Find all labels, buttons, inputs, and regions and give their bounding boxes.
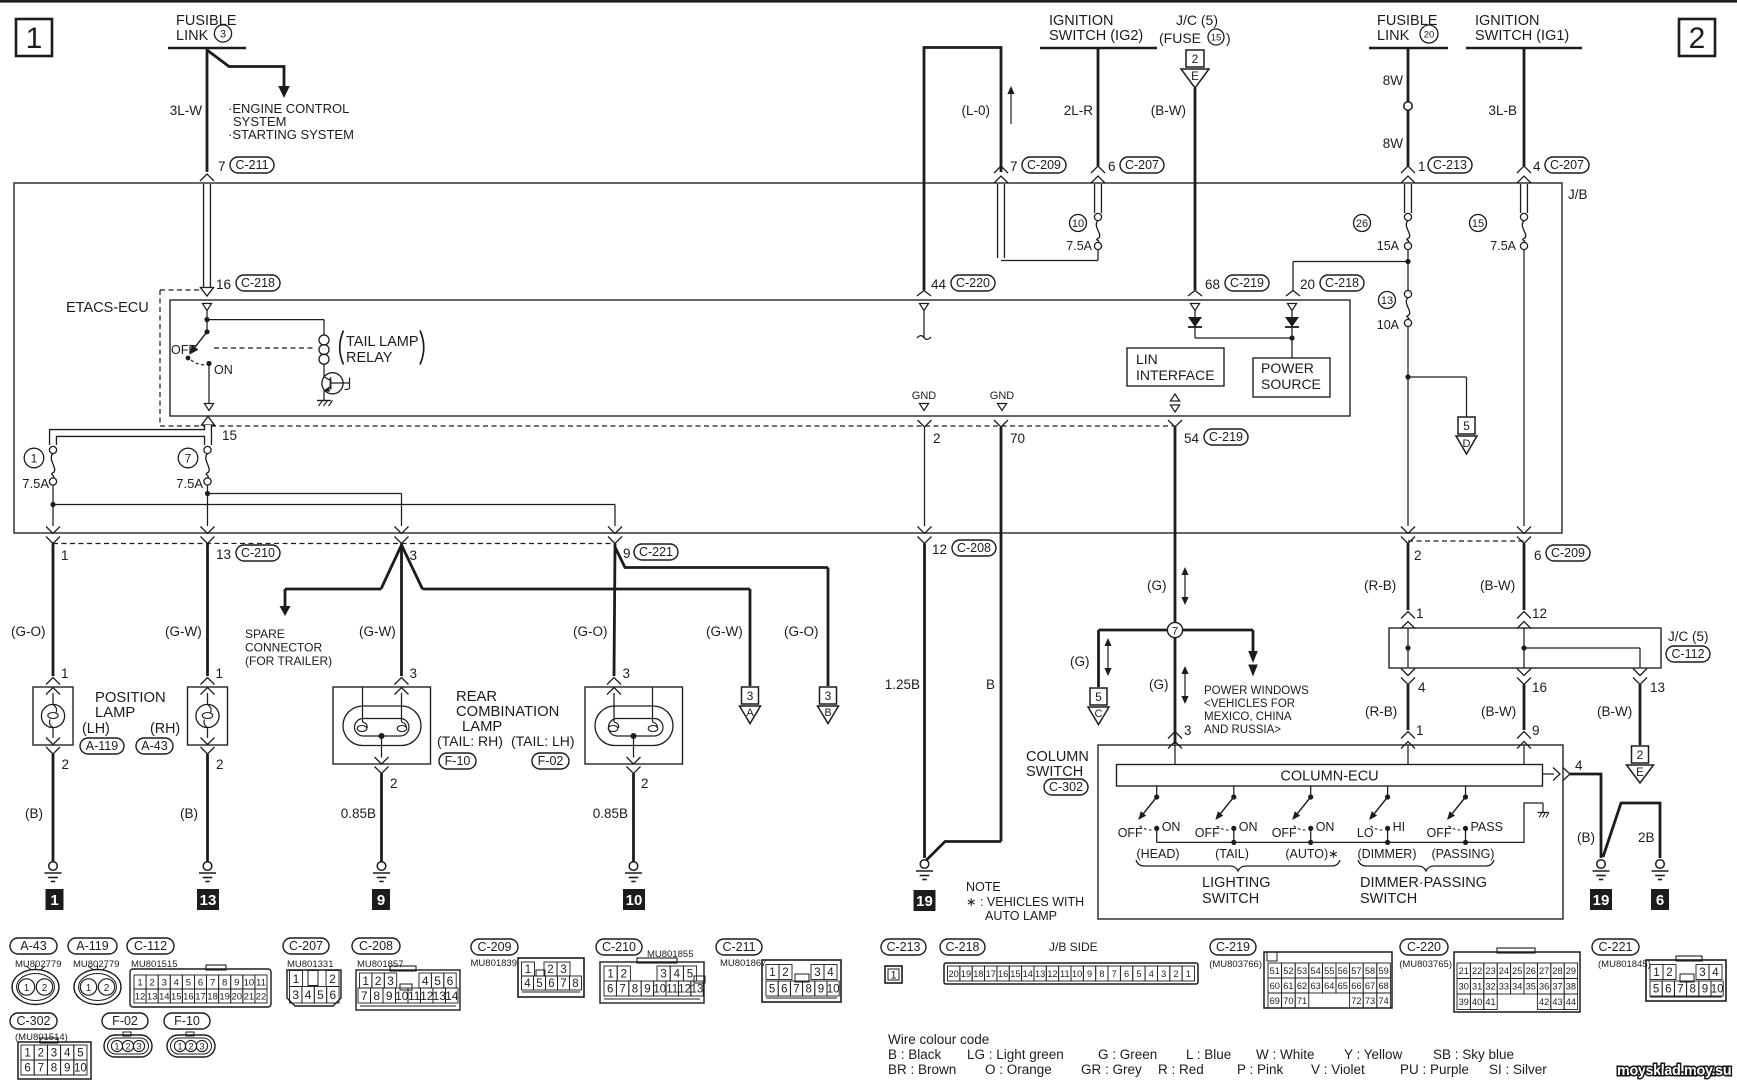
svg-text:(B-W): (B-W) bbox=[1480, 578, 1515, 593]
connector pinout C-302 bbox=[10, 1013, 57, 1029]
svg-text:23: 23 bbox=[1485, 966, 1495, 976]
svg-text:7: 7 bbox=[185, 451, 192, 465]
svg-text:55: 55 bbox=[1324, 966, 1334, 976]
svg-text:5: 5 bbox=[687, 969, 693, 981]
svg-text:43: 43 bbox=[1552, 997, 1562, 1007]
svg-text:6: 6 bbox=[330, 988, 337, 1002]
svg-text:C-221: C-221 bbox=[1598, 940, 1632, 954]
label 13 C-210 bbox=[214, 544, 284, 561]
svg-text:HI: HI bbox=[1393, 820, 1406, 834]
svg-text:6: 6 bbox=[548, 978, 554, 990]
svg-text:(R-B): (R-B) bbox=[1364, 578, 1396, 593]
svg-text:LG : Light green: LG : Light green bbox=[967, 1047, 1064, 1062]
svg-text:J/B: J/B bbox=[1568, 187, 1588, 202]
svg-text:35: 35 bbox=[1526, 982, 1536, 992]
svg-text:3: 3 bbox=[814, 967, 820, 979]
svg-text:2: 2 bbox=[1173, 969, 1178, 979]
svg-text:1: 1 bbox=[137, 977, 142, 988]
svg-text:14: 14 bbox=[159, 991, 170, 1002]
wire 2L-R bbox=[1097, 48, 1100, 166]
ground point 19 right bbox=[1590, 889, 1612, 910]
svg-text:O : Orange: O : Orange bbox=[985, 1062, 1052, 1077]
svg-text:12: 12 bbox=[1047, 969, 1057, 979]
ground point 1 bbox=[46, 889, 64, 910]
svg-text:SWITCH: SWITCH bbox=[1026, 764, 1083, 780]
diode from pin 68 bbox=[1190, 304, 1199, 311]
svg-text:9: 9 bbox=[377, 892, 385, 909]
svg-text:12: 12 bbox=[1532, 606, 1547, 621]
svg-text:28: 28 bbox=[1552, 966, 1562, 976]
svg-text:4: 4 bbox=[1149, 969, 1154, 979]
svg-text:3: 3 bbox=[136, 1042, 141, 1052]
svg-text:37: 37 bbox=[1552, 982, 1562, 992]
svg-text:3: 3 bbox=[747, 689, 754, 703]
svg-text:F-02: F-02 bbox=[112, 1014, 138, 1028]
svg-text:9: 9 bbox=[64, 1063, 70, 1075]
svg-text:(G-W): (G-W) bbox=[359, 624, 396, 639]
wire G-O to position lamp LH bbox=[52, 544, 55, 677]
svg-text:1: 1 bbox=[1653, 967, 1659, 979]
connector 1 exit at J/B bottom bbox=[46, 527, 60, 534]
svg-text:MU802779: MU802779 bbox=[73, 959, 119, 970]
svg-text:C-218: C-218 bbox=[1325, 276, 1359, 290]
svg-text:C-221: C-221 bbox=[639, 545, 673, 559]
svg-text:68: 68 bbox=[1378, 981, 1388, 991]
svg-text:1: 1 bbox=[525, 964, 531, 976]
svg-text:MU802779: MU802779 bbox=[15, 959, 61, 970]
svg-text:25: 25 bbox=[1512, 966, 1522, 976]
svg-text:ON: ON bbox=[1162, 820, 1181, 834]
svg-text:9: 9 bbox=[818, 984, 824, 996]
svg-text:(LH): (LH) bbox=[82, 721, 110, 737]
svg-text:1: 1 bbox=[86, 983, 92, 994]
svg-text:15: 15 bbox=[1010, 969, 1020, 979]
svg-text:Y : Yellow: Y : Yellow bbox=[1344, 1047, 1403, 1062]
node fuse26 output junction bbox=[1405, 259, 1410, 264]
svg-text:C-208: C-208 bbox=[359, 939, 393, 953]
ground rear lamp LH bbox=[629, 862, 638, 871]
svg-text:LO: LO bbox=[1357, 826, 1374, 840]
svg-text:1: 1 bbox=[890, 970, 896, 982]
ground rear lamp RH bbox=[377, 862, 386, 871]
svg-text:29: 29 bbox=[1566, 966, 1576, 976]
svg-text:63: 63 bbox=[1310, 981, 1320, 991]
svg-text:C-207: C-207 bbox=[1550, 158, 1584, 172]
svg-text:8: 8 bbox=[632, 984, 638, 996]
lighting switch AUTO contact bbox=[1310, 786, 1312, 797]
svg-text:7: 7 bbox=[1172, 626, 1178, 638]
wire 1.25B to ground 19 bbox=[923, 544, 926, 859]
svg-text:3L-W: 3L-W bbox=[170, 103, 203, 118]
svg-text:(B): (B) bbox=[25, 806, 43, 821]
ETACS-ECU box bbox=[170, 300, 1350, 416]
svg-text:L : Blue: L : Blue bbox=[1186, 1047, 1231, 1062]
svg-text:20: 20 bbox=[1424, 29, 1435, 40]
svg-text:5: 5 bbox=[186, 977, 191, 988]
svg-text:6: 6 bbox=[198, 977, 203, 988]
svg-text:8W: 8W bbox=[1383, 73, 1404, 88]
svg-text:59: 59 bbox=[1378, 966, 1388, 976]
svg-text:(TAIL): (TAIL) bbox=[1215, 847, 1249, 861]
svg-text:2: 2 bbox=[390, 776, 398, 791]
svg-text:1: 1 bbox=[293, 972, 300, 986]
svg-text:1: 1 bbox=[1418, 159, 1426, 174]
svg-text:moysklad.moy.su: moysklad.moy.su bbox=[1617, 1063, 1731, 1079]
svg-text:4: 4 bbox=[1533, 159, 1541, 174]
svg-text:C: C bbox=[1095, 708, 1103, 720]
ground point 13 bbox=[197, 889, 219, 910]
svg-text:15: 15 bbox=[1211, 32, 1222, 43]
svg-text:6: 6 bbox=[1656, 892, 1664, 909]
svg-text:5: 5 bbox=[1463, 419, 1470, 433]
svg-text:SI : Silver: SI : Silver bbox=[1489, 1062, 1547, 1077]
ground position lamp RH bbox=[203, 862, 212, 871]
wire B-W lower bbox=[1517, 669, 1531, 676]
svg-text:PU : Purple: PU : Purple bbox=[1400, 1062, 1469, 1077]
ground position lamp LH bbox=[49, 862, 58, 871]
svg-text:COMBINATION: COMBINATION bbox=[456, 704, 559, 720]
ground point 6 bbox=[1651, 889, 1669, 910]
fuse 13 10A bbox=[1407, 262, 1409, 291]
rail from fuse 7 to pin 3 bbox=[208, 493, 402, 495]
wire to pointer A bbox=[423, 588, 751, 591]
tail lamp relay coil bbox=[323, 320, 325, 335]
svg-text:E: E bbox=[1191, 71, 1199, 83]
svg-text:5: 5 bbox=[317, 988, 324, 1002]
connector pinout C-210 bbox=[596, 939, 642, 955]
svg-text:C-209: C-209 bbox=[1027, 158, 1061, 172]
svg-text:2: 2 bbox=[375, 974, 382, 988]
svg-text:70: 70 bbox=[1010, 431, 1025, 446]
svg-text:30: 30 bbox=[1459, 982, 1469, 992]
svg-text:13: 13 bbox=[1650, 680, 1665, 695]
svg-text:1.25B: 1.25B bbox=[885, 677, 920, 692]
svg-text:(B): (B) bbox=[180, 806, 198, 821]
fuse 10 7.5A bbox=[1094, 184, 1102, 213]
svg-text:1: 1 bbox=[61, 548, 69, 563]
svg-text:C-218: C-218 bbox=[945, 940, 979, 954]
svg-text:2: 2 bbox=[38, 1048, 44, 1060]
svg-text:OFF: OFF bbox=[1118, 826, 1143, 840]
svg-text:2: 2 bbox=[1689, 22, 1706, 55]
svg-text:5: 5 bbox=[769, 984, 775, 996]
node fuse13 output junction bbox=[1405, 374, 1410, 379]
svg-text:42: 42 bbox=[1539, 997, 1549, 1007]
svg-text:3: 3 bbox=[292, 988, 299, 1002]
connector pinout C-112 bbox=[127, 938, 174, 954]
connector pinout C-208 bbox=[352, 938, 400, 954]
lighting switch TAIL contact bbox=[1233, 786, 1235, 797]
ETACS pin 15 hollow wire to fuses 1 and 7 bbox=[202, 417, 215, 426]
svg-text:7.5A: 7.5A bbox=[176, 476, 203, 491]
svg-text:11: 11 bbox=[256, 977, 266, 988]
junction connector J/C(5) C-112 box bbox=[1389, 628, 1661, 668]
svg-text:20: 20 bbox=[231, 991, 242, 1002]
svg-text:71: 71 bbox=[1297, 996, 1307, 1006]
svg-text:1: 1 bbox=[61, 666, 69, 681]
svg-text:PASS: PASS bbox=[1471, 820, 1503, 834]
svg-text:(G): (G) bbox=[1149, 677, 1169, 692]
svg-text:C-208: C-208 bbox=[957, 541, 991, 555]
connector pinout C-209 bbox=[471, 939, 518, 955]
diode from pin 20 bbox=[1287, 304, 1296, 311]
svg-text:66: 66 bbox=[1351, 981, 1361, 991]
connector pinout F-02 bbox=[102, 1013, 148, 1029]
wire R-B upper bbox=[1407, 544, 1410, 611]
svg-text:26: 26 bbox=[1356, 218, 1368, 230]
svg-text:(B): (B) bbox=[1577, 830, 1595, 845]
svg-text:12: 12 bbox=[678, 984, 691, 996]
svg-text:CONNECTOR: CONNECTOR bbox=[245, 641, 322, 655]
junction block J/B bbox=[14, 183, 1562, 533]
svg-text:57: 57 bbox=[1351, 966, 1361, 976]
dashed connector line C-209 bbox=[1408, 540, 1524, 542]
svg-text:3: 3 bbox=[1184, 723, 1192, 738]
svg-text:3: 3 bbox=[162, 977, 167, 988]
svg-text:7: 7 bbox=[210, 977, 215, 988]
svg-text:POWER WINDOWS: POWER WINDOWS bbox=[1204, 685, 1309, 697]
svg-text:2: 2 bbox=[188, 1042, 193, 1052]
svg-text:18: 18 bbox=[973, 969, 983, 979]
wire 3L-B bbox=[1523, 48, 1526, 166]
svg-text:4: 4 bbox=[827, 967, 834, 979]
pointer 3-B bbox=[820, 687, 837, 704]
svg-text:(G-O): (G-O) bbox=[573, 624, 608, 639]
ground 6 bbox=[1656, 860, 1665, 869]
page number box 1 bbox=[16, 19, 52, 56]
svg-text:1: 1 bbox=[24, 983, 30, 994]
J/C C-112 internal wires bbox=[1407, 628, 1409, 668]
svg-text:5: 5 bbox=[1653, 984, 1659, 996]
svg-text:5: 5 bbox=[77, 1048, 83, 1060]
wire G node7 to column switch bbox=[1174, 638, 1177, 745]
switch common rail to body ground bbox=[1157, 803, 1543, 842]
svg-text:ON: ON bbox=[1316, 820, 1335, 834]
svg-text:3: 3 bbox=[623, 666, 631, 681]
svg-text:1: 1 bbox=[24, 1048, 30, 1060]
svg-text:(DIMMER): (DIMMER) bbox=[1357, 847, 1416, 861]
svg-text:1: 1 bbox=[1416, 723, 1424, 738]
svg-text:12: 12 bbox=[135, 991, 146, 1002]
svg-text:1: 1 bbox=[1186, 969, 1191, 979]
svg-text:4: 4 bbox=[422, 974, 429, 988]
svg-text:LAMP: LAMP bbox=[95, 705, 135, 721]
svg-text:6: 6 bbox=[447, 974, 454, 988]
svg-text:44: 44 bbox=[931, 277, 947, 292]
svg-text:DIMMER·PASSING: DIMMER·PASSING bbox=[1360, 875, 1487, 891]
svg-text:OFF: OFF bbox=[1195, 826, 1220, 840]
svg-text:4: 4 bbox=[1712, 967, 1719, 979]
svg-text:C-209: C-209 bbox=[477, 940, 511, 954]
svg-text:(FOR TRAILER): (FOR TRAILER) bbox=[245, 654, 332, 668]
svg-text:15A: 15A bbox=[1377, 239, 1400, 253]
svg-text:C-302: C-302 bbox=[16, 1014, 50, 1028]
wire G-O from pin 9 to rear combination lamp LH bbox=[615, 544, 828, 568]
svg-text:2B: 2B bbox=[1638, 830, 1655, 845]
wire 0.85B rear lamp LH bbox=[632, 774, 635, 862]
svg-text:A: A bbox=[746, 707, 754, 719]
column ECU output 4 to ground bbox=[1543, 773, 1555, 775]
svg-text:7: 7 bbox=[361, 989, 368, 1003]
svg-text:4: 4 bbox=[174, 977, 179, 988]
svg-text:2: 2 bbox=[782, 967, 788, 979]
svg-text:9: 9 bbox=[386, 989, 393, 1003]
wire B position lamp LH ground bbox=[52, 754, 55, 862]
svg-text:2L-R: 2L-R bbox=[1064, 103, 1094, 118]
svg-text:7: 7 bbox=[38, 1063, 44, 1075]
svg-text:62: 62 bbox=[1297, 981, 1307, 991]
svg-text:C-213: C-213 bbox=[886, 940, 920, 954]
rail from fuse 1 to pin 9 bbox=[53, 504, 615, 506]
svg-text:10: 10 bbox=[244, 977, 255, 988]
svg-text:5: 5 bbox=[1095, 690, 1102, 704]
svg-text:14: 14 bbox=[445, 989, 459, 1003]
svg-text:2: 2 bbox=[62, 757, 70, 772]
svg-text:POWER: POWER bbox=[1261, 360, 1314, 376]
COLUMN-ECU bbox=[1117, 765, 1543, 787]
svg-text:MU801839: MU801839 bbox=[471, 958, 517, 969]
svg-text:15: 15 bbox=[1472, 218, 1484, 230]
svg-text:6: 6 bbox=[1124, 969, 1129, 979]
ground 19 center bbox=[920, 860, 929, 869]
position lamp RH bbox=[201, 678, 215, 685]
label 9 C-221 bbox=[621, 544, 685, 561]
fuse 1 7.5A bbox=[49, 446, 56, 453]
svg-text:7: 7 bbox=[793, 984, 799, 996]
svg-text:7: 7 bbox=[1677, 984, 1683, 996]
svg-text:2: 2 bbox=[1666, 967, 1672, 979]
svg-text:COLUMN: COLUMN bbox=[1026, 749, 1089, 765]
svg-text:B : Black: B : Black bbox=[888, 1047, 942, 1062]
svg-text:SPARE: SPARE bbox=[245, 627, 285, 641]
svg-text:19: 19 bbox=[916, 893, 933, 910]
svg-text:6: 6 bbox=[1108, 159, 1116, 174]
svg-text:P : Pink: P : Pink bbox=[1237, 1062, 1284, 1077]
svg-text:A-119: A-119 bbox=[86, 739, 118, 753]
node 7 bbox=[1167, 622, 1182, 637]
svg-text:3: 3 bbox=[199, 1042, 204, 1052]
svg-text:19: 19 bbox=[961, 969, 971, 979]
position lamp LH bbox=[46, 678, 60, 685]
svg-text:3: 3 bbox=[387, 974, 394, 988]
svg-text:54: 54 bbox=[1184, 431, 1200, 446]
svg-text:AND RUSSIA>: AND RUSSIA> bbox=[1204, 724, 1281, 736]
svg-text:13: 13 bbox=[1381, 295, 1393, 307]
svg-text:F-10: F-10 bbox=[445, 754, 471, 768]
svg-text:7: 7 bbox=[218, 159, 226, 174]
svg-text:52: 52 bbox=[1283, 966, 1293, 976]
svg-text:10: 10 bbox=[74, 1063, 87, 1075]
svg-text:(B-W): (B-W) bbox=[1597, 704, 1632, 719]
connector 9 C-221 exit bbox=[608, 527, 622, 534]
svg-text:(RH): (RH) bbox=[150, 721, 180, 737]
tail lamp relay transistor bbox=[322, 373, 343, 394]
svg-text:C-209: C-209 bbox=[1551, 546, 1585, 560]
svg-text:9: 9 bbox=[1702, 984, 1708, 996]
wire 3L-W bbox=[206, 48, 209, 172]
svg-text:AUTO LAMP: AUTO LAMP bbox=[985, 909, 1057, 923]
svg-text:7: 7 bbox=[619, 984, 625, 996]
svg-text:(G-O): (G-O) bbox=[784, 624, 819, 639]
svg-text:9: 9 bbox=[234, 977, 239, 988]
rear combination lamp LH (tail) bbox=[607, 678, 621, 685]
fuse 7 7.5A bbox=[204, 446, 211, 453]
svg-text:13: 13 bbox=[691, 984, 704, 996]
svg-text:(G): (G) bbox=[1070, 654, 1090, 669]
svg-text:GND: GND bbox=[912, 390, 937, 402]
svg-text:69: 69 bbox=[1270, 996, 1280, 1006]
svg-text:C-219: C-219 bbox=[1209, 430, 1243, 444]
connector pinout C-220 bbox=[1400, 939, 1448, 955]
svg-text:2: 2 bbox=[104, 983, 110, 994]
svg-text:32: 32 bbox=[1485, 982, 1495, 992]
svg-text:C-207: C-207 bbox=[1125, 158, 1159, 172]
svg-text:12: 12 bbox=[932, 542, 947, 557]
wire 2B bbox=[1603, 803, 1660, 858]
connector pinout C-211 bbox=[716, 939, 762, 955]
wire B-W upper bbox=[1523, 544, 1526, 611]
pointer 5-C bbox=[1090, 688, 1107, 705]
svg-text:4: 4 bbox=[674, 969, 681, 981]
svg-text:6: 6 bbox=[781, 984, 787, 996]
wire G-W to position lamp RH bbox=[206, 544, 209, 677]
svg-text:7.5A: 7.5A bbox=[1490, 239, 1516, 253]
svg-text:2: 2 bbox=[641, 776, 649, 791]
svg-text:60: 60 bbox=[1270, 981, 1280, 991]
svg-text:31: 31 bbox=[1472, 982, 1482, 992]
svg-text:SWITCH (IG1): SWITCH (IG1) bbox=[1475, 28, 1569, 44]
svg-text:10: 10 bbox=[1711, 984, 1724, 996]
svg-text:9: 9 bbox=[644, 984, 650, 996]
svg-text:C-220: C-220 bbox=[956, 276, 990, 290]
svg-text:J/C (5): J/C (5) bbox=[1176, 12, 1218, 28]
svg-text:21: 21 bbox=[1459, 966, 1469, 976]
connector 3 exit bbox=[395, 527, 409, 534]
connector pinout F-10 bbox=[164, 1013, 210, 1029]
svg-text:LIGHTING: LIGHTING bbox=[1202, 875, 1270, 891]
svg-text:J/B SIDE: J/B SIDE bbox=[1049, 940, 1098, 954]
svg-text:A-43: A-43 bbox=[141, 739, 167, 753]
wire B position lamp RH ground bbox=[206, 754, 209, 862]
wire to power windows bbox=[1183, 629, 1254, 632]
svg-text:34: 34 bbox=[1512, 982, 1522, 992]
connector pinout A-43 bbox=[10, 938, 57, 954]
ground point 19 center bbox=[914, 890, 936, 911]
svg-text:5: 5 bbox=[1136, 969, 1141, 979]
svg-text:2: 2 bbox=[329, 972, 336, 986]
lighting switch HEAD contact bbox=[1156, 786, 1158, 797]
svg-text:2: 2 bbox=[1414, 548, 1422, 563]
svg-text:(B-W): (B-W) bbox=[1151, 103, 1186, 118]
svg-text:65: 65 bbox=[1338, 981, 1348, 991]
svg-text:51: 51 bbox=[1270, 966, 1280, 976]
svg-text:4: 4 bbox=[1418, 680, 1426, 695]
pointer 2-E lower bbox=[1632, 746, 1649, 763]
svg-text:(G-W): (G-W) bbox=[706, 624, 743, 639]
page top border bbox=[0, 0, 1737, 3]
ground point 9 bbox=[372, 889, 390, 910]
branch arrow to engine control / starting system bbox=[207, 50, 284, 86]
svg-text:18: 18 bbox=[207, 991, 218, 1002]
svg-text:3: 3 bbox=[825, 689, 832, 703]
svg-text:4: 4 bbox=[1575, 758, 1583, 773]
svg-text:70: 70 bbox=[1283, 996, 1293, 1006]
svg-text:MEXICO, CHINA: MEXICO, CHINA bbox=[1204, 711, 1292, 723]
svg-text:10: 10 bbox=[653, 984, 666, 996]
svg-text:10: 10 bbox=[827, 984, 840, 996]
svg-text:C-302: C-302 bbox=[1049, 780, 1083, 794]
svg-text:INTERFACE: INTERFACE bbox=[1136, 367, 1215, 383]
